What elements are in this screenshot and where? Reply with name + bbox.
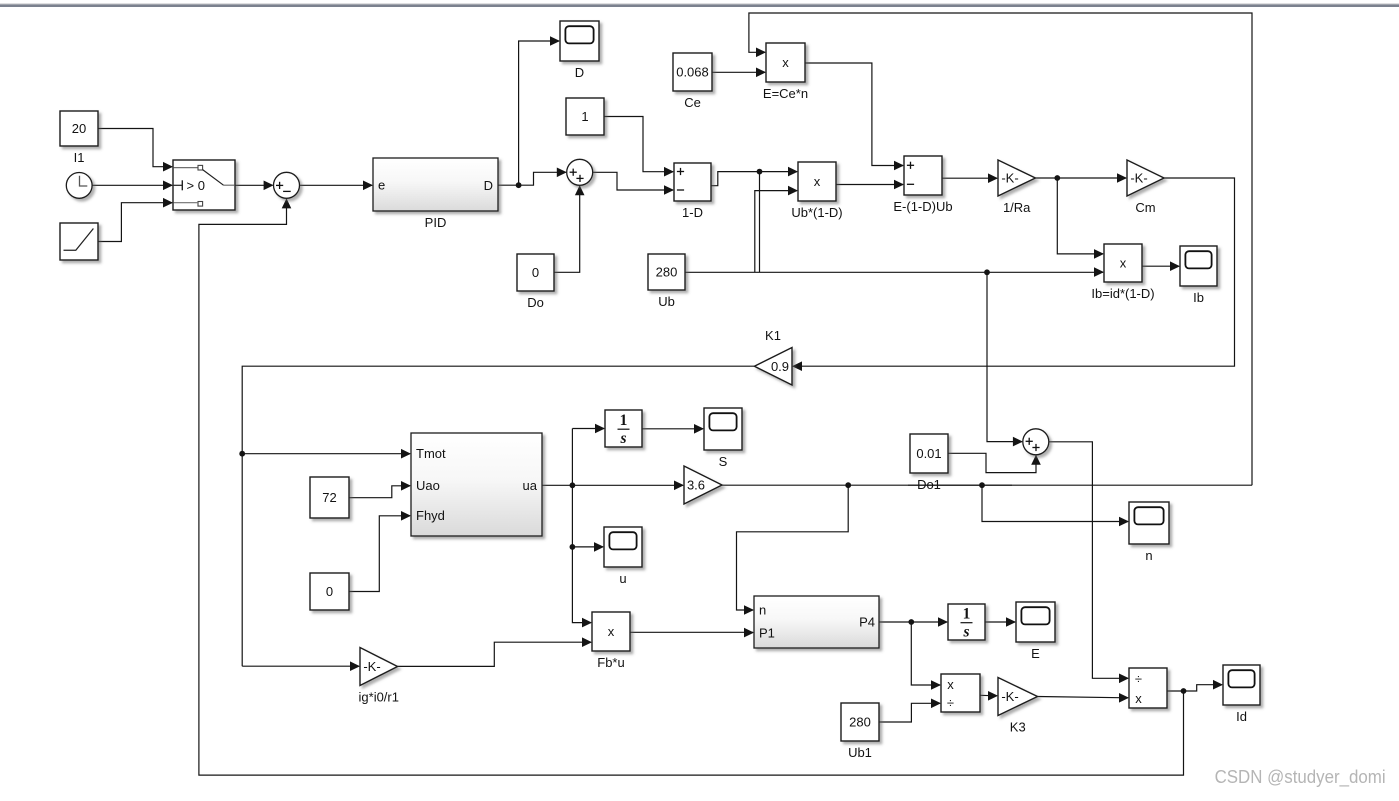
- svg-text:E: E: [1031, 646, 1040, 661]
- svg-text:s: s: [962, 624, 969, 641]
- svg-text:20: 20: [72, 121, 86, 136]
- svg-text:Do1: Do1: [917, 477, 941, 492]
- svg-text:Fhyd: Fhyd: [416, 508, 445, 523]
- svg-text:Do: Do: [527, 295, 544, 310]
- svg-text:x: x: [814, 174, 821, 189]
- svg-text:0.9: 0.9: [771, 359, 789, 374]
- svg-text:x: x: [1120, 256, 1127, 271]
- svg-text:e: e: [378, 178, 385, 193]
- svg-text:n: n: [759, 603, 766, 618]
- svg-text:K3: K3: [1010, 720, 1026, 735]
- svg-text:Ub: Ub: [658, 294, 675, 309]
- svg-text:Ce: Ce: [684, 95, 701, 110]
- svg-text:1: 1: [963, 606, 971, 623]
- svg-text:ua: ua: [523, 478, 538, 493]
- svg-text:CSDN @studyer_domi: CSDN @studyer_domi: [1215, 767, 1386, 788]
- svg-text:72: 72: [322, 490, 336, 505]
- svg-text:E-(1-D)Ub: E-(1-D)Ub: [893, 199, 952, 214]
- svg-text:D: D: [575, 65, 584, 80]
- svg-text:Ib=id*(1-D): Ib=id*(1-D): [1091, 286, 1154, 301]
- svg-text:s: s: [619, 430, 626, 447]
- svg-text:P4: P4: [859, 615, 875, 630]
- svg-text:> 0: > 0: [187, 178, 205, 193]
- svg-text:÷: ÷: [947, 695, 954, 710]
- svg-text:1: 1: [620, 412, 628, 429]
- svg-text:E=Ce*n: E=Ce*n: [763, 86, 808, 101]
- svg-text:D: D: [484, 178, 493, 193]
- svg-text:÷: ÷: [1135, 671, 1142, 686]
- svg-text:Uao: Uao: [416, 478, 440, 493]
- svg-text:0: 0: [532, 265, 539, 280]
- svg-text:280: 280: [656, 265, 678, 280]
- svg-text:Cm: Cm: [1135, 200, 1155, 215]
- svg-text:Tmot: Tmot: [416, 446, 446, 461]
- svg-text:Fb*u: Fb*u: [597, 655, 624, 670]
- svg-text:x: x: [782, 55, 789, 70]
- svg-text:Id: Id: [1236, 709, 1247, 724]
- svg-text:0.068: 0.068: [676, 65, 709, 80]
- svg-text:ig*i0/r1: ig*i0/r1: [359, 690, 399, 705]
- svg-text:x: x: [947, 677, 954, 692]
- svg-text:I1: I1: [74, 150, 85, 165]
- svg-text:1-D: 1-D: [682, 205, 703, 220]
- svg-text:x: x: [1135, 691, 1142, 706]
- svg-text:S: S: [719, 454, 728, 469]
- svg-text:-K-: -K-: [1001, 171, 1018, 186]
- svg-text:K1: K1: [765, 328, 781, 343]
- svg-text:Ib: Ib: [1193, 290, 1204, 305]
- svg-text:0: 0: [326, 584, 333, 599]
- svg-text:1/Ra: 1/Ra: [1003, 200, 1031, 215]
- svg-text:P1: P1: [759, 625, 775, 640]
- svg-text:1: 1: [581, 109, 588, 124]
- svg-text:-K-: -K-: [1001, 689, 1018, 704]
- svg-text:Ub1: Ub1: [848, 745, 872, 760]
- svg-text:3.6: 3.6: [687, 478, 705, 493]
- svg-text:x: x: [608, 624, 615, 639]
- svg-text:PID: PID: [425, 215, 447, 230]
- svg-text:0.01: 0.01: [916, 446, 941, 461]
- svg-text:u: u: [619, 571, 626, 586]
- svg-text:-K-: -K-: [363, 659, 380, 674]
- svg-text:n: n: [1145, 548, 1152, 563]
- svg-text:280: 280: [849, 715, 871, 730]
- svg-text:Ub*(1-D): Ub*(1-D): [791, 205, 842, 220]
- svg-text:-K-: -K-: [1130, 171, 1147, 186]
